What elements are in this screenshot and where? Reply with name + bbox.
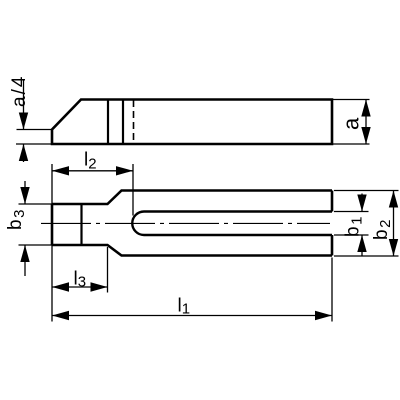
dimension b1 upper arrow xyxy=(357,195,366,212)
dimension l1 line xyxy=(52,315,332,317)
plan view right edge lower xyxy=(331,235,334,256)
dimension b3 leader line upper xyxy=(24,181,26,204)
dimension l2 left arrow xyxy=(52,166,69,175)
svg-text:a: a xyxy=(339,117,364,130)
dimension l3 left arrow xyxy=(52,282,69,291)
side view slot-transition edge 2 xyxy=(122,100,124,145)
dimension a/4 leader line lower xyxy=(23,144,25,162)
dimension l3 line xyxy=(52,286,108,288)
dimension b3 leader line lower xyxy=(24,245,26,276)
plan view slot with rounded end xyxy=(132,212,332,236)
side view hidden slot end (dashed) xyxy=(133,100,135,143)
dimension b1 leader line upper xyxy=(361,194,363,212)
plan view bevel projection edge xyxy=(80,204,82,245)
dimension l2 right arrow xyxy=(116,166,133,175)
dimension l1 left arrow xyxy=(52,311,69,320)
left common extension line xyxy=(51,164,53,322)
dimension l2 line xyxy=(52,170,133,172)
dimension b1 leader line lower xyxy=(361,235,363,256)
dimension a/4 upper arrow xyxy=(19,113,28,130)
dimension b3 extension line bottom xyxy=(19,244,55,246)
dimension b2 extension line bottom xyxy=(334,255,399,257)
dimension l3 right extension line xyxy=(107,247,109,293)
dimension a extension line bottom xyxy=(333,143,370,145)
dimension b2 extension line top xyxy=(334,190,399,192)
dimension a/4 lower arrow xyxy=(19,144,28,161)
dimension b1 extension line bottom xyxy=(334,234,369,236)
dimension l1 right extension line xyxy=(331,258,333,322)
dimension l1 right arrow xyxy=(315,311,332,320)
dimension b1 lower arrow xyxy=(357,235,366,252)
side view outline xyxy=(52,100,332,145)
plan view left face xyxy=(51,204,54,245)
dimension b3 extension line top xyxy=(19,203,55,205)
dimension a line xyxy=(365,100,367,145)
dimension a/4 extension line top xyxy=(17,129,53,131)
dimension a/4 leader line upper xyxy=(23,79,25,130)
plan view outline top xyxy=(52,191,332,205)
plan view center line xyxy=(41,222,330,224)
dimension a/4 extension line bottom xyxy=(16,143,52,145)
dimension b2 upper arrow xyxy=(389,191,398,208)
dimension l2 right extension line xyxy=(132,164,134,216)
dimension b1 extension line top xyxy=(334,211,369,213)
side view slot-transition edge 1 xyxy=(107,100,109,145)
dimension l3 right arrow xyxy=(91,282,108,291)
dimension b2 lower arrow xyxy=(389,239,398,256)
dimension a upper arrow xyxy=(361,100,370,117)
dimension b3 lower arrow xyxy=(20,245,29,262)
dimension a lower arrow xyxy=(361,127,370,144)
plan view outline bottom xyxy=(52,245,332,256)
dimension a extension line top xyxy=(333,99,370,101)
svg-text:a/4: a/4 xyxy=(9,75,30,107)
dimension b2 line xyxy=(393,191,395,257)
plan view right edge upper xyxy=(331,191,334,212)
dimension b3 upper arrow xyxy=(20,187,29,204)
